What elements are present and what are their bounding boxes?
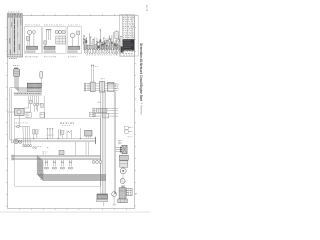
gauge circle (120, 167, 126, 174)
main bus 3 (15, 137, 96, 144)
lamp L1 (14, 139, 19, 144)
svg-text:Generation 4/4 Network Circuit: Generation 4/4 Network Circuit Engine St… (139, 43, 143, 102)
bundle label strip (14, 92, 42, 96)
actuator body (119, 188, 126, 199)
box B caption (44, 55, 45, 58)
chain side label (128, 136, 130, 139)
lamp L2 (19, 140, 22, 143)
label above bus1 (101, 77, 103, 80)
bottom connector row 2 (97, 199, 108, 201)
rotated legend table (7, 12, 22, 57)
bus 2 (93, 108, 119, 117)
actuator flange (118, 199, 127, 203)
diode pair D1 (33, 130, 38, 139)
legend footer label (8, 57, 11, 60)
chain label tags (125, 126, 133, 133)
fuse strip cluster (83, 29, 123, 55)
label right of B3 (115, 85, 119, 90)
label above J1 (13, 64, 14, 67)
chain stack lower (120, 161, 128, 168)
wire pair to lamps (10, 88, 15, 143)
box C caption (68, 55, 69, 58)
braced junction box (122, 145, 127, 154)
box A caption (25, 55, 27, 58)
pump circle (112, 192, 117, 206)
connector J1 (14, 68, 20, 77)
page border frame (6, 14, 139, 210)
actuator cap (121, 185, 125, 188)
switch group S1 (47, 128, 53, 138)
sub-circuit box A (24, 27, 41, 54)
twin terminals (33, 103, 43, 112)
bus2 block N1 (97, 108, 103, 113)
chain pin ticks (119, 140, 122, 145)
upper branch inside enclosure (15, 123, 30, 128)
bus2 block N2 (102, 108, 107, 113)
rows under dense panel (120, 51, 134, 55)
svg-text:4. Harness: 4. Harness (140, 103, 143, 116)
sub-circuit box B (43, 27, 66, 54)
label above bus2 (98, 101, 100, 104)
switch group S2 (58, 129, 64, 139)
trunk wire bundle (101, 91, 116, 197)
terminal ring row (23, 145, 32, 147)
lower bus 4 (12, 155, 101, 161)
title block table (120, 15, 135, 57)
sensor trio (92, 160, 102, 164)
capsule component (40, 71, 43, 83)
bus1 block B2 (100, 81, 105, 92)
connector block X1 row 1 (27, 83, 41, 88)
sub-circuit box C (67, 27, 81, 54)
harness elbow band (37, 155, 106, 180)
outer margin line (137, 16, 139, 56)
contact symbols S3 (67, 130, 71, 138)
bus 1 (84, 83, 118, 91)
labels above boxes (25, 24, 27, 27)
main enclosure box (15, 118, 101, 186)
band side labels (40, 174, 45, 181)
bus1 block B3 (108, 83, 115, 92)
connector block X1 row 2 (27, 88, 41, 91)
ref tag 3 (89, 112, 95, 116)
riser wires above bus1 (91, 65, 98, 82)
title block dense panel (123, 39, 134, 50)
svg-text:1/4: 1/4 (145, 5, 149, 13)
relay box K7 (85, 130, 92, 138)
motor circle (120, 174, 125, 184)
ref tag 1 (26, 113, 31, 118)
hanging terminal pairs (44, 160, 72, 170)
small relay G2 (8, 108, 25, 126)
small component left of table (115, 30, 119, 56)
stud pair (33, 146, 41, 149)
bus1 block B1 (91, 82, 96, 92)
bottom connector block (97, 194, 107, 199)
inline splice on X1 wire (29, 100, 32, 103)
border tick label (135, 192, 136, 195)
wires descending from X1 (24, 96, 44, 118)
wire bundle J1 to X1 (14, 77, 27, 92)
inter-bus link wires (47, 142, 88, 156)
bus2 block N3 (102, 113, 109, 118)
chain stack upper (119, 155, 128, 160)
scan shadow line (0, 212, 150, 213)
terminal drop wires (23, 127, 30, 145)
enclosure header label (60, 123, 74, 126)
single drop wire (79, 128, 81, 139)
bus4 upper tags (43, 150, 65, 155)
chain arrows (116, 147, 122, 153)
ref tag 2 (40, 113, 45, 118)
wire below connector (103, 202, 105, 207)
side control box (127, 188, 133, 195)
